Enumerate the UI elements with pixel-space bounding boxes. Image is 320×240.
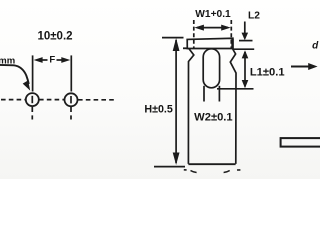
L2 arrow line	[244, 22, 246, 34]
svg-text:H±0.5: H±0.5	[144, 103, 172, 115]
svg-text:L2: L2	[248, 10, 260, 21]
leader arrowhead	[23, 80, 31, 90]
L1 up arrowhead	[242, 50, 249, 58]
L1 bottom reference line	[217, 88, 254, 90]
d arrow line	[291, 66, 310, 68]
F dimension line right arrow	[61, 57, 70, 63]
H bottom reference line	[154, 166, 185, 168]
slot (stadium opening)	[203, 49, 219, 88]
hole left	[26, 93, 39, 106]
vertical centerline right hole	[70, 96, 72, 103]
W1 extension line left (dashed)	[193, 20, 195, 49]
leader line to left hole	[0, 65, 29, 84]
svg-text:L1±0.1: L1±0.1	[250, 67, 285, 79]
F dimension extension line left	[32, 55, 34, 91]
clip left profile	[188, 49, 193, 164]
cap bottom extension line	[233, 48, 254, 50]
hole right	[65, 93, 78, 106]
L1 dimension line	[244, 52, 246, 87]
svg-text:F: F	[49, 55, 55, 66]
clip top cap	[187, 38, 233, 48]
svg-text:10±0.2: 10±0.2	[37, 30, 72, 42]
H dimension line	[175, 40, 177, 163]
W1 right arrowhead	[221, 25, 231, 31]
fuse side view plate (cut off at right edge)	[281, 138, 320, 147]
cap bottom-left overshoot tick	[183, 47, 188, 49]
W1 left arrowhead	[194, 25, 204, 31]
slot left edge extension	[203, 86, 205, 102]
d arrowhead (right)	[308, 63, 317, 70]
H up arrowhead	[173, 38, 180, 51]
L1 down arrowhead	[242, 80, 249, 88]
F dimension extension line right	[70, 55, 72, 91]
hidden fuse arc dashes under clip	[184, 169, 187, 171]
H top reference line	[162, 37, 184, 39]
W1 dimension line	[197, 27, 228, 29]
slot right edge extension	[218, 86, 220, 102]
W1 extension line right (dashed)	[230, 20, 232, 49]
vertical centerline left hole	[31, 96, 33, 103]
L2 arrowhead (down)	[242, 33, 249, 41]
H down arrowhead	[173, 153, 180, 166]
L2 top reference line	[239, 40, 253, 42]
clip bottom edge	[188, 163, 235, 165]
F dimension line left arrow	[34, 57, 43, 63]
svg-text:W2±0.1: W2±0.1	[194, 111, 232, 123]
cap right thick edge	[231, 39, 233, 49]
clip right profile	[230, 49, 236, 164]
horizontal centerline through holes	[1, 99, 25, 101]
svg-text:d: d	[312, 41, 319, 52]
svg-text:W1+0.1: W1+0.1	[195, 9, 231, 20]
